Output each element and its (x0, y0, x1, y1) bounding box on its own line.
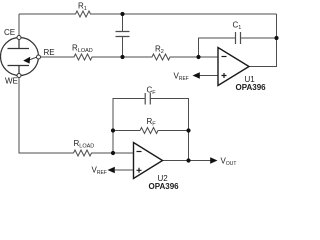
wire RLOAD1 to R2 (94, 56, 151, 58)
wire RE to RLOAD1 (41, 56, 73, 58)
svg-text:OPA396: OPA396 (236, 83, 267, 92)
wire RF left segment (113, 130, 139, 132)
svg-text:RE: RE (44, 48, 55, 57)
wire top horizontal left segment (19, 13, 74, 15)
resistor R2 (151, 54, 172, 60)
junction U2 output (186, 158, 190, 162)
svg-text:VREF: VREF (92, 166, 107, 177)
resistor RLOAD2 (72, 150, 93, 156)
svg-text:C1: C1 (233, 21, 242, 32)
wire R2 to U1 inverting input (172, 56, 219, 58)
junction U2 inverting input (111, 151, 115, 155)
wire VREF to U2 noninverting input (115, 169, 134, 171)
resistor RLOAD1 (73, 54, 94, 60)
junction bottom of shunt cap (120, 55, 124, 59)
wire CF loop right leg (150, 99, 188, 131)
op-amp U1 (218, 48, 249, 86)
node WE terminal (17, 74, 21, 78)
junction C1 loop right (274, 36, 278, 40)
capacitor C2 plates (116, 32, 130, 37)
svg-text:CF: CF (147, 86, 157, 97)
wire C1 loop left leg (199, 38, 236, 57)
svg-text:OPA396: OPA396 (149, 182, 180, 191)
svg-text:VREF: VREF (174, 72, 189, 83)
junction C1 loop left (196, 55, 200, 59)
WE electrode plate (8, 66, 30, 74)
svg-text:WE: WE (5, 77, 18, 86)
svg-text:RLOAD: RLOAD (72, 44, 93, 55)
electrochemical cell body (1, 38, 39, 76)
RE electrode arrow inside cell (30, 57, 37, 60)
svg-text:RF: RF (147, 117, 157, 128)
wire top horizontal right segment (92, 13, 277, 15)
arrow VOUT (210, 157, 217, 164)
junction CF/RF left (111, 128, 115, 132)
junction RF right (186, 128, 190, 132)
svg-text:RLOAD: RLOAD (74, 139, 95, 150)
wire WE vertical and bottom run (19, 78, 72, 154)
capacitor CF plates (145, 93, 150, 105)
wire shunt capacitor branch upper (122, 14, 124, 32)
wire shunt capacitor branch lower (122, 37, 124, 58)
resistor R1 (74, 11, 92, 17)
wire CF loop left leg (113, 99, 145, 154)
wire RF loop right vertical to output (188, 131, 190, 161)
svg-text:CE: CE (4, 28, 15, 37)
CE electrode plate (8, 40, 30, 49)
capacitor C1 plates (236, 32, 241, 44)
wire CE vertical (18, 14, 20, 36)
svg-text:R2: R2 (155, 45, 164, 56)
wire U2 output run (163, 160, 212, 162)
node CE terminal (17, 36, 21, 40)
wire U1 output to right vertical (249, 14, 277, 67)
arrow VREF U1 (193, 72, 200, 79)
wire RF right segment (160, 130, 189, 132)
svg-text:R1: R1 (78, 2, 87, 13)
wire RLOAD2 to U2 inverting input (93, 152, 134, 154)
wire VREF to U1 noninverting input (200, 75, 219, 77)
wire C1 loop right leg (241, 37, 277, 39)
arrow VREF U2 (108, 167, 115, 174)
resistor RF (139, 128, 160, 134)
svg-text:VOUT: VOUT (221, 157, 237, 168)
op-amp U2 (134, 143, 163, 179)
node RE terminal (37, 55, 41, 59)
junction top of shunt cap (120, 12, 124, 16)
